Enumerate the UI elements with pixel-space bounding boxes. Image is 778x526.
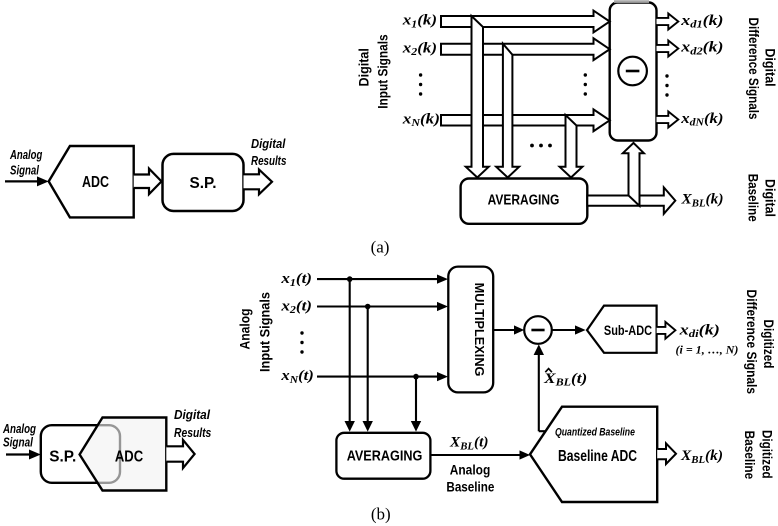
Baseline ADC converter block: [530, 407, 657, 502]
Sub-ADC converter block: [587, 306, 657, 353]
vertical bus branch from x2 pipe down to AVERAGING: [496, 44, 519, 178]
wire x2(t) to MULTIPLEXING: [317, 305, 441, 307]
svg-text:Signal: Signal: [10, 163, 39, 178]
bus pipe AVERAGING output XBL(k): [587, 187, 675, 213]
wire analog input (top-left): [5, 180, 40, 182]
double-line output arrow of Baseline ADC: [657, 443, 676, 464]
svg-text:ADC: ADC: [115, 449, 143, 466]
wire MULTIPLEXING to subtractor: [493, 329, 517, 331]
bus pipe x1(k) into difference block: [441, 11, 610, 33]
output arrow xd2: [657, 41, 679, 57]
S.P. block (bottom-left): [41, 425, 120, 483]
vertical ellipsis between input labels (a): [419, 73, 422, 95]
vertical bus branch baseline feedback up into difference block: [623, 143, 644, 206]
svg-text:Input Signals: Input Signals: [257, 292, 272, 372]
svg-text:x2(t): x2(t): [280, 298, 312, 316]
svg-text:Baseline: Baseline: [446, 480, 494, 495]
svg-text:xN(k): xN(k): [402, 111, 440, 129]
vertical bus branch from xN pipe down to AVERAGING: [560, 115, 583, 178]
svg-text:x1(t): x1(t): [280, 271, 312, 289]
feedback arrow into subtractor (quantized baseline): [534, 344, 544, 355]
svg-text:MULTIPLEXING: MULTIPLEXING: [472, 283, 487, 377]
svg-text:Analog: Analog: [237, 309, 252, 350]
double-line output arrow of Sub-ADC: [657, 322, 676, 339]
bus pipe x2(k) into difference block: [441, 38, 610, 60]
AVERAGING block (b): [336, 433, 430, 479]
subtractor symbol (minus circle, a): [618, 57, 647, 86]
svg-text:xd2(k): xd2(k): [680, 40, 723, 58]
svg-text:Digital: Digital: [357, 48, 372, 86]
vertical bus branch from x1 pipe down to AVERAGING: [466, 16, 489, 178]
svg-text:Analog: Analog: [9, 147, 42, 162]
difference block (rounded, a): [610, 3, 657, 141]
svg-text:S.P.: S.P.: [190, 175, 217, 192]
svg-text:Digitized: Digitized: [761, 320, 776, 369]
MULTIPLEXING block: [448, 267, 493, 393]
svg-text:AVERAGING: AVERAGING: [488, 193, 560, 209]
svg-text:Sub-ADC: Sub-ADC: [604, 323, 652, 338]
svg-text:x1(k): x1(k): [402, 13, 437, 31]
vertical ellipsis between input labels (b): [300, 331, 303, 353]
wire x1(t) to MULTIPLEXING: [317, 278, 441, 280]
wire branch xN down to AVERAGING (b): [415, 377, 417, 423]
svg-text:(i = 1, …, N): (i = 1, …, N): [676, 343, 739, 357]
ADC converter block (top-left): [49, 146, 134, 217]
bus pipe xN(k) into difference block: [441, 109, 610, 131]
svg-text:Digital: Digital: [762, 179, 777, 217]
svg-text:AVERAGING: AVERAGING: [347, 448, 423, 464]
horizontal ellipsis between down branches (a): [530, 144, 552, 148]
block arrow ADC output (bottom-left): [166, 440, 194, 468]
AVERAGING block (a): [461, 179, 588, 224]
vertical ellipsis between output arrows (a): [665, 74, 668, 96]
svg-text:Baseline ADC: Baseline ADC: [558, 448, 637, 465]
svg-text:Digital: Digital: [174, 407, 210, 422]
svg-text:Results: Results: [174, 425, 211, 440]
svg-text:Difference Signals: Difference Signals: [746, 18, 761, 120]
svg-text:(b): (b): [371, 505, 391, 524]
junction dot on xN wire: [413, 374, 419, 380]
wire branch x2 down to AVERAGING (b): [367, 307, 369, 424]
output arrow xd1: [657, 14, 679, 30]
svg-text:xdi(k): xdi(k): [678, 322, 720, 340]
block arrow ADC to S.P.: [134, 169, 162, 195]
svg-text:Digital: Digital: [763, 48, 778, 86]
svg-text:Signal: Signal: [3, 435, 33, 450]
svg-text:Results: Results: [251, 153, 286, 168]
ADC converter block overlapping S.P. (bottom-left): [80, 418, 167, 491]
gray clipped top edge of difference block: [614, 0, 649, 3]
wire analog input (bottom-left): [6, 453, 32, 455]
output arrow xdN: [657, 112, 679, 128]
svg-text:ADC: ADC: [82, 174, 109, 191]
svg-text:Baseline: Baseline: [742, 431, 757, 480]
junction dot on x1 wire: [347, 276, 353, 282]
svg-text:Baseline: Baseline: [746, 174, 761, 222]
svg-text:S.P.: S.P.: [49, 449, 76, 466]
svg-text:Input Signals: Input Signals: [375, 34, 390, 108]
wire AVERAGING to Baseline ADC: [430, 454, 523, 456]
svg-text:xd1(k): xd1(k): [680, 13, 723, 31]
wire branch x1 down to AVERAGING (b): [349, 279, 351, 423]
svg-text:(a): (a): [371, 238, 390, 257]
junction dot on x2 wire: [365, 304, 371, 310]
wire subtractor to Sub-ADC: [552, 329, 578, 331]
svg-text:Difference Signals: Difference Signals: [744, 290, 759, 395]
S.P. block (top-left): [163, 154, 244, 211]
svg-text:Analog: Analog: [450, 463, 491, 478]
svg-text:x2(k): x2(k): [402, 40, 437, 58]
wire xN(t) to MULTIPLEXING: [317, 376, 441, 378]
svg-text:Digital: Digital: [251, 136, 286, 151]
svg-text:Quantized Baseline: Quantized Baseline: [555, 427, 635, 439]
subtractor symbol (minus circle, b): [524, 316, 552, 344]
svg-text:Digitized: Digitized: [760, 430, 775, 479]
vertical ellipsis mid (a): [584, 73, 587, 95]
block arrow S.P. output: [244, 170, 273, 195]
